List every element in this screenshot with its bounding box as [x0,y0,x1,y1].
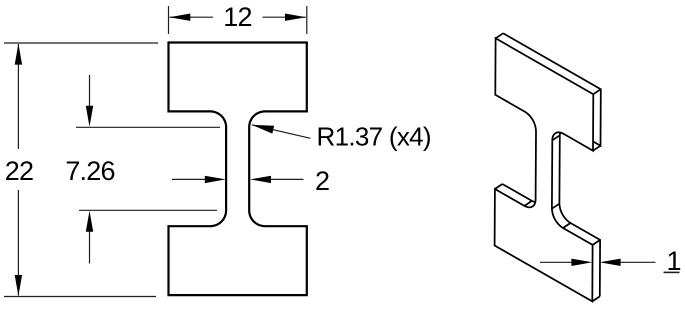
leader R1.37 line [252,125,311,139]
svg-text:7.26: 7.26 [65,156,114,186]
svg-text:12: 12 [223,2,251,32]
dimension 7.26 extension lines [76,127,220,210]
dimension 2 right arrow [250,176,271,183]
dimension 7.26 down arrow [86,106,93,127]
svg-text:1: 1 [666,246,681,276]
isometric tangent edge 2 [563,223,571,228]
isometric connecting edge 3 [495,184,503,189]
isometric tangent edge 3 [524,201,532,206]
isometric connecting edge 2 [593,146,601,151]
dimension 2 dimension lines [172,178,304,180]
isometric connecting edge 5 [592,296,600,301]
isometric tangent edge 1 [552,204,560,209]
dimension 22 top arrow [15,44,22,65]
isometric tangent edge 0 [552,135,560,140]
leader R1.37 arrow [252,125,274,134]
dimension 7.26 dimension lines [89,75,91,264]
front view I-beam profile [169,43,307,296]
dimension 12 extension lines [169,6,307,34]
isometric back profile (left notch portion) [502,107,543,203]
dimension 12 line [170,16,306,18]
dimension 1 right arrow [600,259,621,266]
isometric connecting edge 0 [496,33,504,38]
isometric front profile [495,38,594,301]
dimension 1 left arrow [571,259,592,266]
isometric back profile (top/right visible portion) [503,33,601,296]
dimension 1 underline [664,271,680,273]
isometric connecting edge 1 [593,89,601,94]
dimension 1 dimension lines [540,261,656,263]
svg-text:2: 2 [315,166,330,196]
svg-text:R1.37 (x4): R1.37 (x4) [317,122,431,152]
dimension 12 left arrow [169,14,190,21]
dimension 22 line [17,44,19,296]
dimension 22 bottom arrow [15,275,22,296]
isometric connecting edge 4 [593,240,601,245]
dimension 7.26 up arrow [86,211,93,232]
dimension 22 extension lines [4,43,158,297]
dimension 2 left arrow [205,176,226,183]
dimension 12 right arrow [285,14,306,21]
svg-text:22: 22 [5,156,33,186]
